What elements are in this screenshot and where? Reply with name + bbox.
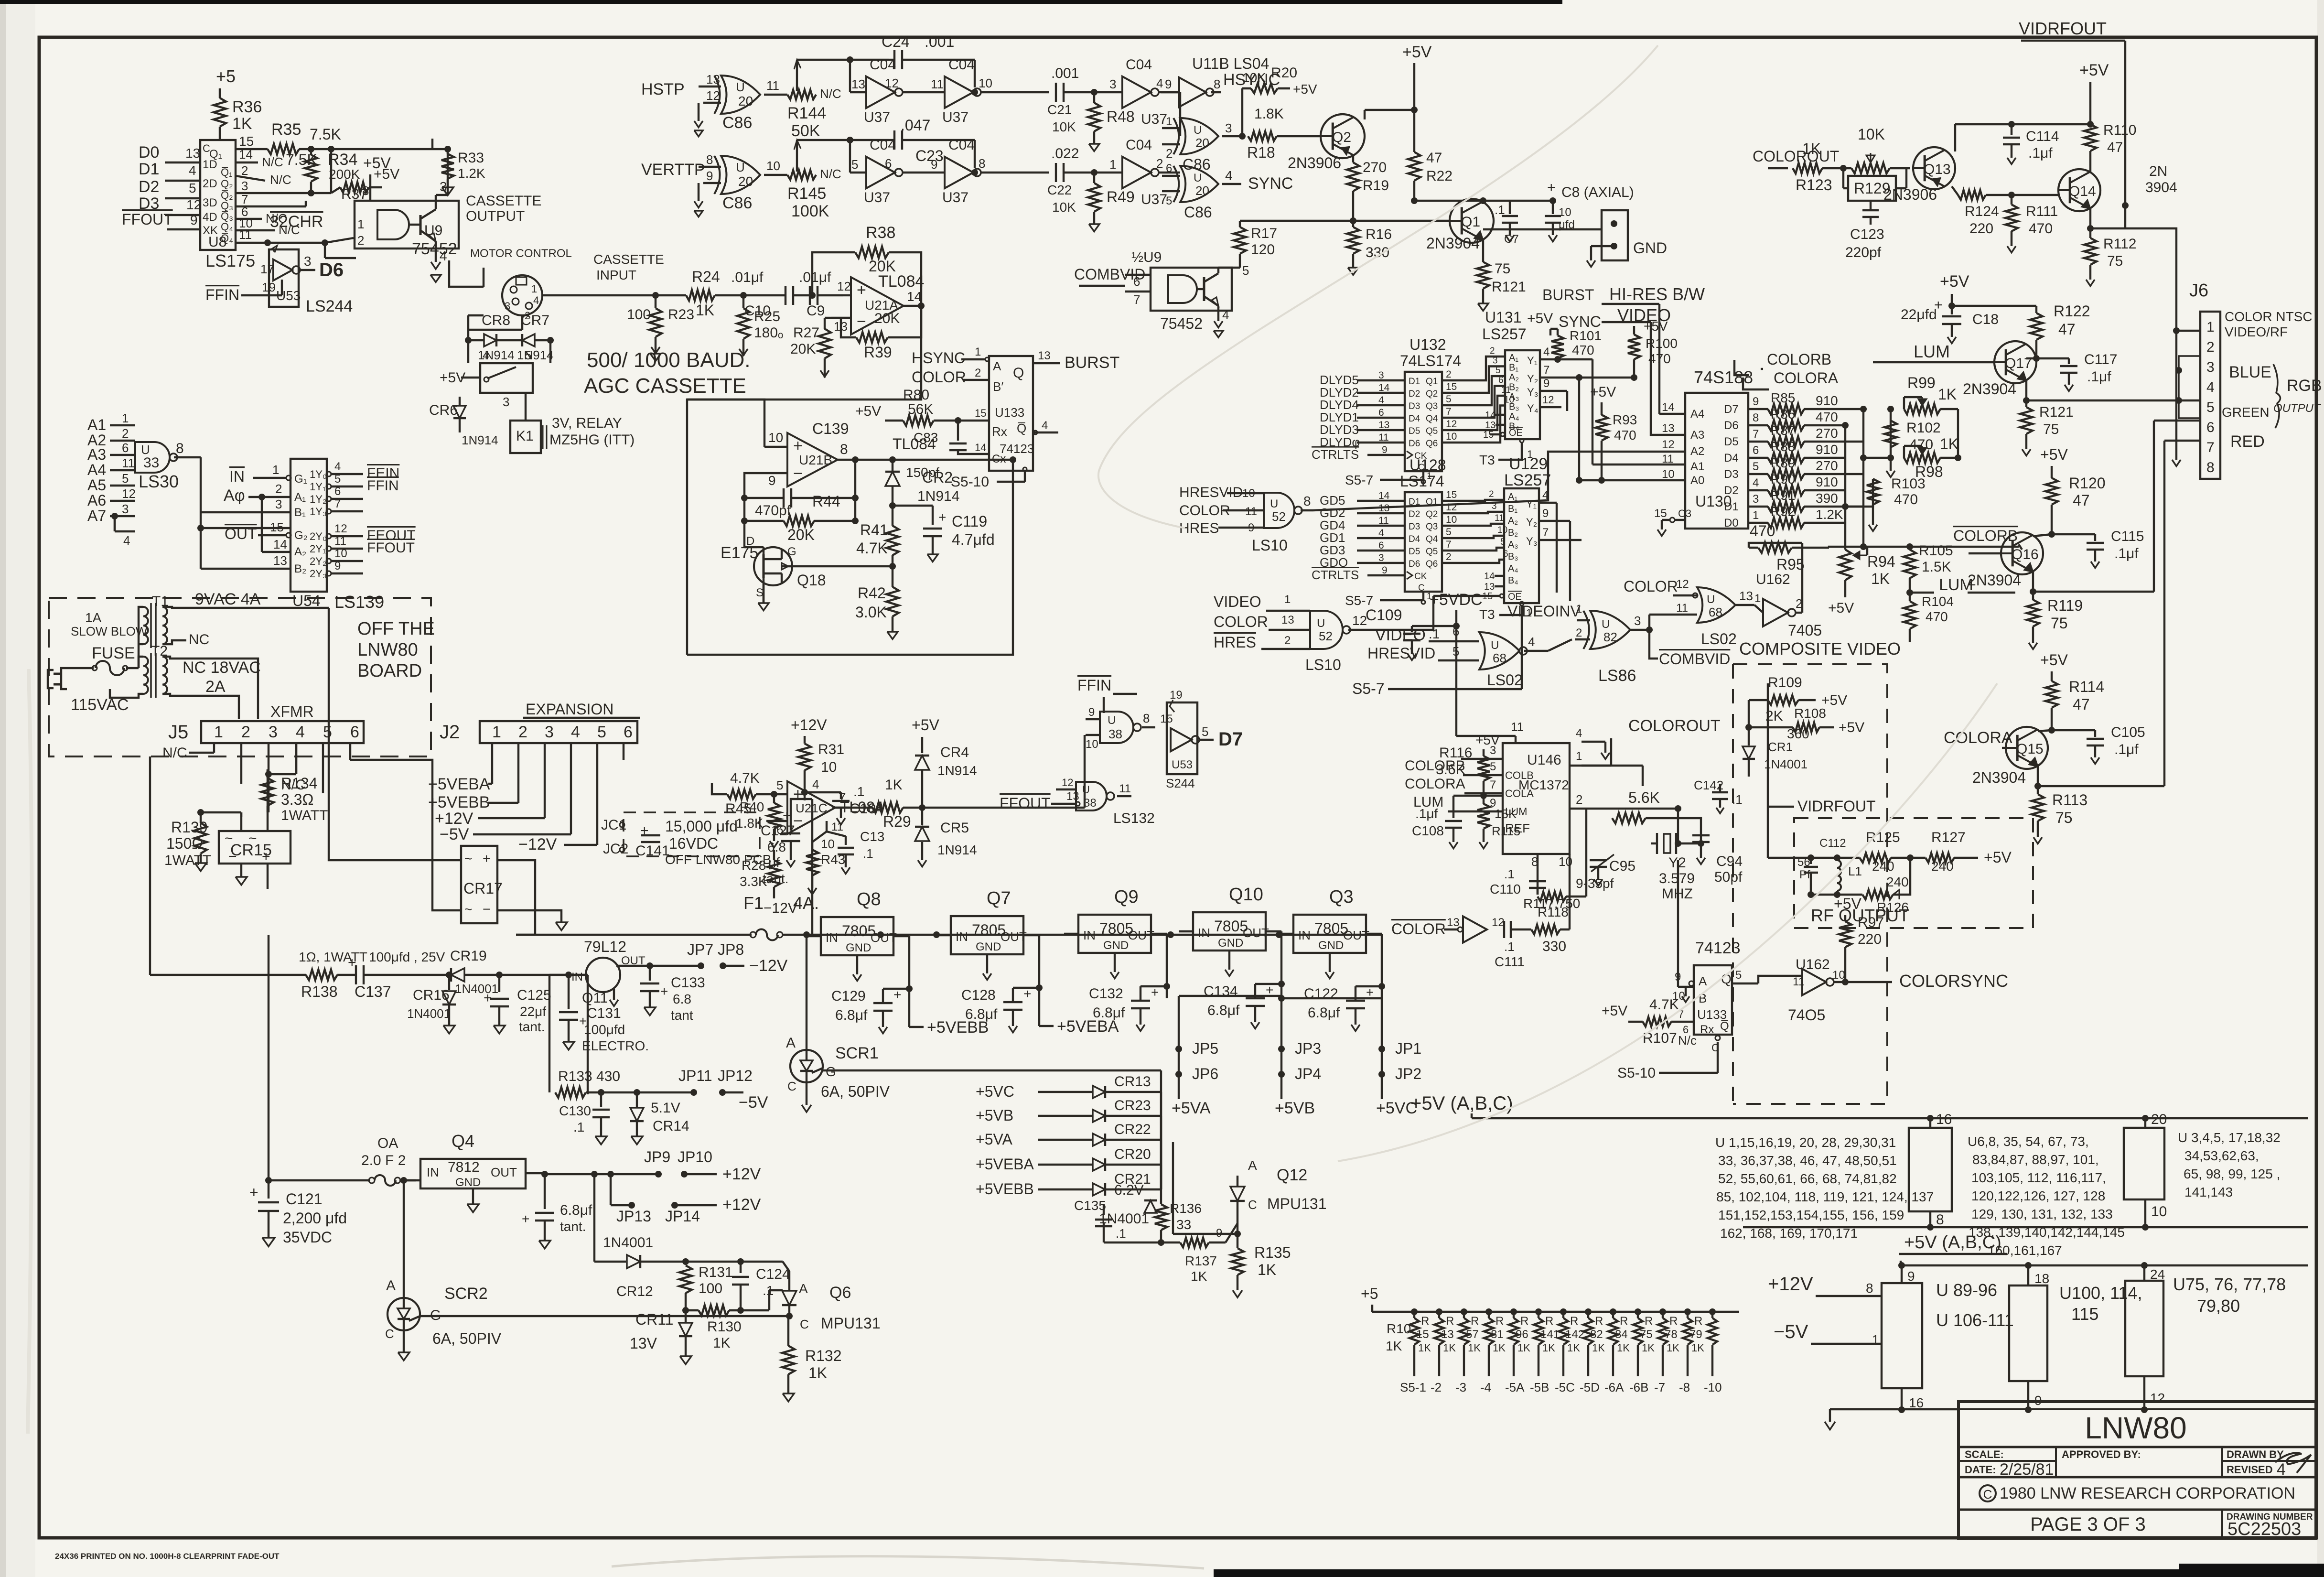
wire U128 Q4 output [1442, 527, 1481, 538]
svg-text:R131: R131 [699, 1264, 733, 1280]
svg-text:5: 5 [1242, 263, 1249, 278]
label +5VEBB feed [428, 793, 518, 811]
svg-text:20K: 20K [790, 341, 816, 357]
resistor R90 910 [1748, 472, 1845, 496]
svg-text:U75, 76, 77,78: U75, 76, 77,78 [2173, 1275, 2286, 1294]
svg-text:R: R [1520, 1315, 1528, 1328]
svg-text:C13: C13 [860, 829, 884, 844]
wire U128 Q1 output [1442, 489, 1481, 501]
svg-text:6: 6 [1498, 376, 1504, 386]
svg-text:2Y₂: 2Y₂ [310, 555, 326, 567]
svg-text:U: U [1082, 784, 1090, 796]
resistor R103 470 vertical [1867, 476, 1926, 531]
svg-text:~: ~ [225, 831, 233, 846]
svg-text:32CHR: 32CHR [270, 213, 323, 231]
resistor R28 3.3K vertical [740, 850, 780, 898]
svg-text:1K: 1K [1667, 1342, 1679, 1354]
label COLORB wire [1910, 527, 2019, 547]
svg-text:6.8μf: 6.8μf [965, 1006, 998, 1022]
title block frame [1958, 1402, 2316, 1538]
capacitor C105 .1uf [2052, 724, 2145, 764]
svg-text:JP6: JP6 [1192, 1065, 1218, 1082]
svg-text:5.1V: 5.1V [651, 1100, 680, 1116]
svg-text:Y₃: Y₃ [1527, 386, 1539, 398]
wire U128 Q2 output [1442, 502, 1481, 513]
svg-text:52, 55,60,61, 66, 68, 74,81,82: 52, 55,60,61, 66, 68, 74,81,82 [1718, 1171, 1897, 1186]
svg-text:47: 47 [2073, 696, 2090, 713]
svg-text:5: 5 [1166, 194, 1172, 207]
op-amp U21A TL084 [831, 272, 925, 335]
label 500/1000 BAUD AGC CASSETTE [584, 348, 750, 398]
svg-text:+: + [938, 510, 946, 525]
svg-text:220pf: 220pf [1845, 245, 1882, 260]
svg-text:.1μf: .1μf [2114, 742, 2139, 757]
svg-text:82: 82 [1603, 630, 1617, 644]
svg-text:15: 15 [1446, 381, 1457, 392]
diode CR22 from +5VA [976, 1122, 1161, 1189]
svg-text:+5VA: +5VA [976, 1131, 1012, 1148]
capacitor C7 .1 [1480, 197, 1553, 246]
scanner black strip top [0, 0, 1562, 4]
regulator Q3 7805 [1279, 887, 1382, 998]
svg-text:U 106-111: U 106-111 [1936, 1310, 2014, 1330]
wire T2 secondary [162, 657, 258, 719]
svg-text:COLOR: COLOR [1391, 920, 1446, 938]
relay switch box K1 [480, 348, 533, 409]
svg-text:8: 8 [1303, 494, 1311, 508]
svg-text:G: G [826, 1064, 836, 1079]
label COLOR into U133 [912, 367, 989, 386]
svg-text:SYNC: SYNC [1559, 313, 1601, 330]
svg-text:9: 9 [1543, 377, 1549, 390]
resistor R145 100K [787, 140, 841, 220]
inverter D6 buffer triangle [260, 254, 315, 281]
svg-text:COLB: COLB [1505, 769, 1534, 781]
svg-text:12: 12 [1662, 438, 1675, 451]
svg-text:12: 12 [1062, 777, 1073, 788]
svg-text:7: 7 [1133, 292, 1140, 307]
svg-text:81: 81 [1491, 1328, 1504, 1341]
gate U33 LS30 [135, 441, 290, 531]
svg-text:12: 12 [334, 522, 347, 535]
resistor R110 47 vertical [2084, 122, 2137, 172]
svg-text:D2: D2 [1409, 389, 1420, 399]
svg-text:2: 2 [1576, 626, 1582, 639]
svg-text:Y₂: Y₂ [1527, 373, 1538, 385]
svg-text:52: 52 [1319, 629, 1333, 643]
svg-text:103,105, 112, 116,117,: 103,105, 112, 116,117, [1971, 1170, 2106, 1185]
wire Q16 emitter to J6 [2033, 421, 2154, 592]
svg-text:VERTTP: VERTTP [641, 161, 705, 179]
transistor Q2 2N3906 [1288, 110, 1414, 172]
zener CR11 13V [630, 1310, 692, 1356]
svg-text:U21B: U21B [799, 453, 832, 467]
ic U131 LS257 [1482, 309, 1540, 439]
svg-text:2D: 2D [203, 177, 217, 190]
svg-text:LS175: LS175 [205, 251, 255, 270]
svg-text:Q2: Q2 [1426, 389, 1438, 399]
svg-text:1K: 1K [1691, 1342, 1704, 1354]
ground below CR15 [236, 877, 247, 885]
label SYNC net [1559, 313, 1685, 435]
wire U128 Q3 output [1442, 514, 1481, 526]
svg-text:VIDRFOUT: VIDRFOUT [2019, 19, 2107, 38]
capacitor C10 .01uf [731, 270, 812, 319]
buffer U53 LS244 box [269, 246, 353, 315]
svg-text:D2: D2 [139, 178, 159, 196]
svg-text:68: 68 [1709, 605, 1722, 619]
jumper JP7 JP8 -12V [687, 941, 788, 975]
resistor R121b 75 vertical [2020, 397, 2176, 456]
svg-text:FFOUT: FFOUT [122, 211, 173, 228]
svg-text:13: 13 [273, 553, 287, 568]
svg-text:1N4001: 1N4001 [603, 1235, 653, 1251]
svg-text:U: U [1194, 124, 1202, 137]
svg-text:R42: R42 [858, 584, 886, 602]
wire pin7 Q3 [236, 192, 306, 206]
svg-text:4: 4 [1528, 635, 1535, 649]
svg-text:R118: R118 [1538, 905, 1569, 919]
svg-text:C: C [1983, 1487, 1992, 1501]
svg-text:U37: U37 [1141, 111, 1167, 127]
svg-text:9: 9 [1753, 395, 1759, 408]
title label REVISED 4 [2227, 1460, 2286, 1479]
svg-text:14: 14 [975, 442, 986, 454]
label BURST net [1542, 286, 1659, 414]
svg-text:7: 7 [2206, 440, 2215, 455]
svg-text:R133 430: R133 430 [558, 1069, 620, 1084]
svg-text:3.0K: 3.0K [855, 604, 887, 621]
svg-text:-2: -2 [1431, 1380, 1442, 1394]
gate U52 LS10 upper [1179, 452, 1685, 554]
resistor 141 1K pullup [1540, 1308, 1568, 1376]
capacitor C135 .1 [1074, 1198, 1161, 1242]
resistor 81 1K pullup [1491, 1308, 1518, 1376]
resistor R108 360 [1745, 700, 1864, 745]
svg-text:C129: C129 [831, 988, 866, 1004]
svg-text:5: 5 [334, 473, 341, 486]
svg-text:6: 6 [2206, 420, 2215, 435]
capacitor ('C22', '10K') .022 [1047, 146, 1097, 215]
label COLORA into Q15 [1944, 729, 2012, 748]
svg-text:2/25/81: 2/25/81 [2000, 1460, 2054, 1479]
svg-text:8: 8 [1753, 411, 1759, 424]
resistor R134 3.3ohm 1WATT [261, 769, 328, 823]
svg-text:13: 13 [185, 146, 200, 161]
svg-text:-5C: -5C [1555, 1380, 1575, 1394]
svg-text:8: 8 [840, 442, 848, 457]
svg-text:240: 240 [1886, 875, 1909, 889]
wire 32CHR to U9 inputs [322, 238, 356, 258]
svg-text:S5-10: S5-10 [1617, 1065, 1656, 1081]
svg-text:R85: R85 [1771, 390, 1795, 405]
svg-text:470: 470 [1926, 609, 1948, 624]
svg-text:NC: NC [189, 632, 209, 648]
svg-text:115: 115 [2071, 1304, 2098, 1324]
svg-text:D2: D2 [1409, 509, 1420, 519]
svg-text:D5: D5 [1409, 426, 1420, 436]
dashed box RF OUTPUT [1794, 818, 2033, 928]
svg-text:4: 4 [1576, 727, 1582, 740]
svg-text:U: U [736, 160, 745, 174]
svg-text:C137: C137 [355, 983, 391, 1000]
svg-text:R109: R109 [1768, 675, 1802, 691]
svg-text:LS02: LS02 [1487, 671, 1523, 689]
label A0 to U54 [224, 482, 290, 505]
regulator Q9 7805 [1064, 887, 1167, 998]
svg-text:75: 75 [2055, 809, 2073, 826]
svg-text:11: 11 [1378, 432, 1389, 443]
label BURST output [1033, 349, 1119, 372]
label IN to U54 G1 [229, 463, 291, 485]
label NC 18VAC 2A [183, 659, 261, 696]
svg-text:A: A [1699, 974, 1707, 988]
ground below R16 [1348, 268, 1358, 275]
svg-text:R144: R144 [787, 104, 826, 122]
svg-text:CR5: CR5 [940, 820, 969, 836]
wire J5 pin3 to CR15 + [268, 743, 296, 812]
capacitor C119 4.7mfd [893, 506, 995, 554]
svg-text:C83: C83 [914, 430, 938, 445]
resistor R88 910 [1748, 439, 1845, 463]
svg-text:Q6: Q6 [829, 1284, 851, 1302]
svg-text:3: 3 [505, 300, 510, 312]
svg-text:.1: .1 [1495, 203, 1505, 217]
svg-text:A6: A6 [87, 492, 106, 509]
svg-text:15: 15 [975, 407, 986, 419]
capacitor C131 100mfd ELECTRO [559, 972, 649, 1053]
svg-text:2: 2 [122, 426, 129, 441]
svg-text:+: + [522, 1211, 529, 1226]
svg-text:Q7: Q7 [987, 888, 1011, 908]
svg-text:C04: C04 [1126, 57, 1152, 73]
svg-text:6.8μf: 6.8μf [1093, 1005, 1125, 1021]
label DLYD2 into U132 [1320, 382, 1405, 400]
svg-text:BOARD: BOARD [357, 661, 422, 681]
label SS-7 OE wire [1352, 615, 1522, 697]
svg-text:1N914: 1N914 [462, 433, 498, 447]
paper crease bottom center [612, 1556, 1204, 1568]
ground below CR14 [631, 1136, 643, 1145]
svg-text:A₂: A₂ [1508, 516, 1518, 526]
svg-text:COLOR: COLOR [1214, 613, 1268, 630]
svg-text:+5V: +5V [912, 716, 939, 734]
svg-text:U: U [736, 80, 745, 94]
svg-text:1.5K: 1.5K [1922, 559, 1951, 575]
resistor R144 50K [787, 60, 841, 140]
ic U146 MC1372 [1456, 720, 1570, 854]
svg-text:1980 LNW RESEARCH CORPORATION: 1980 LNW RESEARCH CORPORATION [2000, 1484, 2295, 1502]
svg-text:11: 11 [122, 456, 135, 470]
svg-text:74O5: 74O5 [1788, 1006, 1825, 1024]
label D0 input [139, 143, 200, 162]
svg-text:74LS174: 74LS174 [1400, 352, 1461, 369]
svg-text:tant.: tant. [560, 1219, 586, 1234]
svg-text:+5V: +5V [1828, 600, 1854, 616]
svg-text:C04: C04 [870, 57, 896, 73]
svg-text:LNW80: LNW80 [2085, 1411, 2186, 1445]
ground below C121 [262, 1238, 275, 1246]
ground below R48 [1089, 144, 1099, 151]
svg-text:.047: .047 [901, 117, 930, 134]
svg-text:6: 6 [1378, 407, 1384, 418]
svg-text:LS257: LS257 [1504, 471, 1551, 489]
svg-text:Y₃: Y₃ [1526, 535, 1538, 547]
wire Q12 collector down to R135 [1173, 1142, 1241, 1237]
svg-text:AGC CASSETTE: AGC CASSETTE [584, 374, 746, 398]
label DLYD4 into U132 [1320, 395, 1405, 412]
svg-text:38: 38 [1108, 727, 1122, 741]
svg-text:R130: R130 [707, 1319, 742, 1335]
wire U9 pin8 +5V [362, 154, 391, 201]
wire +5V R120 [2040, 446, 2068, 478]
svg-text:C105: C105 [2111, 724, 2145, 740]
label +5V 4.7K R107 [1602, 997, 1697, 1048]
label VIDRFOUT lower [1768, 683, 1876, 815]
svg-text:A₁: A₁ [294, 491, 306, 504]
svg-text:IN: IN [1198, 926, 1210, 940]
svg-text:Q5: Q5 [1426, 426, 1438, 436]
svg-text:EXPANSION: EXPANSION [526, 701, 613, 718]
label GD2 into U128 [1320, 503, 1405, 520]
svg-text:+12V: +12V [791, 716, 827, 734]
svg-text:4: 4 [812, 777, 819, 791]
resistor R48 10K vertical [1088, 92, 1135, 144]
svg-text:−5V: −5V [739, 1093, 768, 1112]
svg-text:D1: D1 [1409, 377, 1420, 387]
svg-text:220: 220 [1969, 221, 1993, 237]
svg-text:COLOR: COLOR [1624, 578, 1678, 595]
svg-text:5: 5 [1496, 366, 1501, 376]
svg-text:4.7K: 4.7K [1649, 997, 1679, 1013]
svg-text:+12V: +12V [722, 1196, 761, 1214]
svg-text:Q15: Q15 [2016, 741, 2044, 757]
and gate U9 [357, 210, 457, 258]
svg-text:G₂: G₂ [294, 529, 308, 542]
bus wires resistor ladder [1842, 406, 1913, 550]
label +5V R97 220 [1834, 895, 1884, 985]
svg-text:Q13: Q13 [1924, 162, 1951, 177]
svg-text:S: S [756, 586, 764, 599]
svg-text:+12V: +12V [1768, 1274, 1813, 1295]
svg-text:6A, 50PIV: 6A, 50PIV [432, 1330, 502, 1347]
label BLUE [2229, 363, 2271, 381]
svg-text:75: 75 [1640, 1328, 1653, 1341]
wire Q15 emitter to J6 [2038, 441, 2164, 786]
svg-text:12: 12 [1542, 394, 1554, 406]
inverter U37 third VERTTP [1094, 137, 1180, 207]
svg-text:9: 9 [1165, 77, 1172, 91]
svg-text:+5V: +5V [1602, 1003, 1627, 1019]
svg-text:CR6: CR6 [429, 402, 458, 418]
svg-text:C128: C128 [961, 987, 996, 1003]
svg-text:C119: C119 [952, 513, 987, 530]
bypass box U100 114 115 [2009, 1262, 2049, 1413]
svg-text:6.8μf: 6.8μf [560, 1202, 592, 1218]
resistor 142 1K pullup [1565, 1308, 1593, 1376]
wire U133 Q-bar pin4 [1033, 419, 1058, 434]
svg-text:1A: 1A [85, 610, 102, 625]
svg-text:2: 2 [1446, 369, 1452, 380]
resistor R133 430 [555, 1069, 697, 1098]
svg-text:10: 10 [1446, 514, 1457, 525]
svg-text:MOTOR CONTROL: MOTOR CONTROL [470, 247, 572, 260]
wire R17 R16 node to Q1 base [1240, 217, 1450, 224]
svg-text:+5VA: +5VA [1172, 1099, 1211, 1117]
svg-text:10: 10 [1662, 468, 1675, 481]
svg-text:270: 270 [1363, 160, 1387, 175]
resistor R114 47 vertical [2045, 678, 2104, 734]
svg-text:2K: 2K [1765, 708, 1783, 724]
wire crystal net down to U133b [1678, 860, 1694, 987]
wire U132 Q6 output [1442, 431, 1481, 443]
svg-text:.001: .001 [1051, 65, 1079, 81]
svg-text:A0: A0 [1690, 474, 1704, 487]
svg-text:GREEN: GREEN [2222, 405, 2270, 420]
svg-text:+5V: +5V [1527, 311, 1553, 326]
svg-text:S5-10: S5-10 [951, 474, 989, 490]
svg-text:R88: R88 [1771, 439, 1795, 454]
svg-text:Q4: Q4 [1426, 414, 1438, 424]
label -12V feed [518, 835, 597, 853]
svg-text:C: C [1418, 583, 1425, 593]
svg-text:B₁: B₁ [294, 506, 306, 519]
svg-text:D2: D2 [1724, 484, 1739, 497]
svg-text:R87: R87 [1771, 423, 1795, 438]
resistor R130 1K [686, 1305, 769, 1351]
ground below SCR2 [398, 1352, 409, 1361]
svg-text:COLOR NTSC: COLOR NTSC [2225, 309, 2313, 324]
ground below R33 [442, 187, 453, 195]
svg-text:1Y₀: 1Y₀ [310, 468, 327, 480]
svg-text:INPUT: INPUT [596, 268, 636, 282]
svg-text:18: 18 [2034, 1271, 2049, 1286]
svg-text:162, 168, 169, 170,171: 162, 168, 169, 170,171 [1720, 1226, 1858, 1241]
svg-text:1K: 1K [1443, 1342, 1456, 1354]
label U131 pins 14 13 15 [1483, 410, 1505, 440]
svg-text:R126: R126 [1877, 900, 1909, 915]
svg-text:+5V: +5V [363, 154, 391, 172]
inverter U37 third HSTP [1094, 57, 1180, 127]
bypass cap box pin20 [2124, 1112, 2167, 1231]
svg-text:13: 13 [1281, 614, 1294, 626]
wire U131 Y4 output [1540, 394, 1561, 407]
ground below U9 pin4 [430, 275, 441, 282]
svg-text:LS257: LS257 [1482, 325, 1527, 343]
svg-text:D6: D6 [319, 259, 344, 281]
svg-text:2N3904: 2N3904 [1968, 572, 2021, 589]
svg-text:FFIN: FFIN [1077, 677, 1111, 694]
capacitor C132 6.8uf [1089, 983, 1170, 1031]
resistor R36 1K [214, 98, 262, 141]
svg-text:D5: D5 [1409, 547, 1420, 557]
svg-text:-3: -3 [1455, 1380, 1466, 1394]
svg-text:1: 1 [1576, 750, 1582, 763]
label S5-10 lower [1617, 1036, 1720, 1081]
label J6 [2189, 281, 2208, 301]
svg-text:4: 4 [483, 348, 489, 362]
svg-text:SYNC: SYNC [1248, 174, 1293, 193]
svg-text:1K: 1K [1940, 435, 1958, 453]
svg-text:C133: C133 [671, 975, 705, 991]
svg-text:D3: D3 [139, 194, 159, 213]
ground below C119 [927, 554, 938, 562]
svg-text:1: 1 [1576, 603, 1582, 616]
label +12V R31 [791, 716, 827, 744]
svg-text:OUT: OUT [1001, 929, 1027, 944]
svg-text:A: A [386, 1278, 396, 1294]
svg-text:+: + [660, 984, 668, 999]
